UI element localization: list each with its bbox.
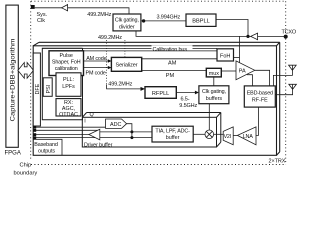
svg-text:PM: PM xyxy=(166,73,175,79)
svg-text:PLL:: PLL: xyxy=(63,77,74,83)
RFPLL box xyxy=(145,87,176,99)
PLL LPFs box xyxy=(56,73,81,97)
svg-text:Clk gating,: Clk gating, xyxy=(202,89,226,95)
svg-text:ADC: ADC xyxy=(110,122,121,128)
chip main box 3D slab xyxy=(33,42,280,155)
double arrow FPGA to chip xyxy=(18,63,34,79)
antenna 2 xyxy=(289,84,297,89)
antenna 1 feed wire xyxy=(273,70,292,86)
svg-text:RFPLL: RFPLL xyxy=(152,91,169,97)
Clk gating divider box xyxy=(113,14,141,31)
svg-text:outputs: outputs xyxy=(38,148,55,154)
Pulse shaper FoH calibration box xyxy=(49,51,84,76)
dotted clock line to serializer xyxy=(124,40,126,57)
TIA LPF ADC-buffer box xyxy=(152,126,193,142)
BBPLL box xyxy=(186,14,216,26)
svg-text:2×TRX: 2×TRX xyxy=(269,158,286,164)
DFE box xyxy=(33,53,40,126)
svg-text:AM code: AM code xyxy=(86,56,106,62)
svg-text:OTDAC: OTDAC xyxy=(59,112,78,118)
calibration bus lower line xyxy=(84,50,218,52)
svg-text:divider: divider xyxy=(119,24,135,30)
mux to PA wire xyxy=(221,70,236,72)
svg-text:LNA: LNA xyxy=(243,134,253,140)
RF-FE to LNA wire xyxy=(256,107,259,135)
mux box xyxy=(206,68,221,77)
left inner container box xyxy=(42,48,82,120)
TIA to mixer wire xyxy=(193,133,205,135)
svg-text:buffers: buffers xyxy=(206,96,223,102)
svg-text:Shaper, FoH: Shaper, FoH xyxy=(52,59,81,65)
RX AGC OTDAC box xyxy=(56,99,81,116)
EBD-based RF-FE box xyxy=(244,86,275,107)
svg-text:boundary: boundary xyxy=(14,170,38,176)
svg-text:9.5GHz: 9.5GHz xyxy=(179,103,197,109)
Sys.Clk wire xyxy=(35,8,129,14)
driver buffer triangle xyxy=(89,129,100,140)
svg-text:6.5-: 6.5- xyxy=(181,97,190,103)
ADC output wire xyxy=(127,124,132,138)
svg-text:AM: AM xyxy=(168,61,177,67)
AM wire serializer to FoH xyxy=(142,58,217,60)
TIA upper input wire xyxy=(100,131,152,133)
TCXO buffer triangle (left pointing) xyxy=(251,33,258,40)
LNA triangle xyxy=(237,127,256,145)
svg-text:499.2MHz: 499.2MHz xyxy=(108,82,132,88)
svg-text:Baseband: Baseband xyxy=(34,142,58,148)
svg-text:Q: Q xyxy=(90,112,94,118)
svg-text:PA: PA xyxy=(239,68,246,74)
wire BBPLL right to TCXO line xyxy=(216,20,248,37)
mux down wire xyxy=(213,77,215,86)
PA bottom tap wire to RF-FE xyxy=(247,75,253,86)
svg-text:I: I xyxy=(84,119,86,125)
svg-text:FPGA: FPGA xyxy=(5,151,21,157)
antenna 2 feed wire xyxy=(275,89,292,94)
baseband wires with junction dots xyxy=(33,126,152,139)
svg-text:BBPLL: BBPLL xyxy=(192,19,209,25)
svg-text:Clk: Clk xyxy=(37,18,45,24)
svg-text:Clk gating,: Clk gating, xyxy=(115,17,139,23)
chip boundary dotted rectangle xyxy=(31,1,286,164)
Sys.Clk square terminal xyxy=(31,5,35,9)
svg-text:EBD-based: EBD-based xyxy=(247,90,273,96)
Serializer box xyxy=(111,57,141,71)
baseband outputs compartment xyxy=(33,139,62,155)
svg-text:calibration: calibration xyxy=(55,66,78,72)
svg-text:Serializer: Serializer xyxy=(116,63,138,69)
svg-text:PSI: PSI xyxy=(46,85,52,94)
svg-text:LPFs: LPFs xyxy=(62,84,75,90)
clock wire down to FoH and PA xyxy=(239,36,241,64)
svg-text:FoH: FoH xyxy=(220,54,230,60)
svg-text:TCXO: TCXO xyxy=(282,30,297,36)
wire divider to BBPLL xyxy=(141,20,186,22)
svg-text:499.2MHz: 499.2MHz xyxy=(87,12,111,18)
calibration bus upper line xyxy=(42,47,217,49)
TCXO terminal dot xyxy=(284,35,288,39)
mixer to V2I wire xyxy=(214,133,224,135)
ADC pentagon xyxy=(106,119,127,128)
calibration bus label xyxy=(152,45,193,50)
PA amplifier triangle xyxy=(236,61,255,80)
junction dot at divider output xyxy=(142,19,145,22)
svg-text:Pulse: Pulse xyxy=(59,53,73,59)
Clk gating buffers box xyxy=(199,86,229,104)
IQ channel 3D slab xyxy=(82,113,221,148)
PA output wire to RF-FE xyxy=(255,70,270,86)
svg-text:mux: mux xyxy=(209,71,219,77)
wire into RFPLL xyxy=(107,85,142,89)
svg-text:DFE: DFE xyxy=(35,83,41,94)
svg-text:Chip: Chip xyxy=(20,162,32,168)
PM code wire xyxy=(84,67,112,69)
AM code wire xyxy=(84,60,112,62)
junction dot on TCXO line xyxy=(246,35,249,38)
svg-text:499.2MHz: 499.2MHz xyxy=(98,35,122,41)
LO wire down to mixer xyxy=(208,104,210,130)
FPGA box xyxy=(6,5,18,147)
svg-text:3.994GHz: 3.994GHz xyxy=(157,15,181,21)
svg-text:V2I: V2I xyxy=(224,134,231,140)
FoH right connection xyxy=(234,57,240,59)
svg-text:RF-FE: RF-FE xyxy=(252,98,268,104)
clock buffer triangle (left pointing) on Sys.Clk wire xyxy=(62,5,68,11)
499.2MHz distribution wire from divider bottom xyxy=(136,31,286,37)
PSI box xyxy=(43,78,52,97)
svg-text:TIA, LPF, ADC-: TIA, LPF, ADC- xyxy=(155,129,190,135)
V2I to LNA wire xyxy=(233,134,237,136)
RFPLL to clk gating buffers wire xyxy=(176,92,196,94)
svg-text:Capture+DBB+algorithm: Capture+DBB+algorithm xyxy=(10,39,17,122)
svg-text:Driver buffer: Driver buffer xyxy=(84,142,113,148)
V2I trapezoid xyxy=(223,127,233,145)
FoH box xyxy=(217,49,234,61)
svg-text:buffer: buffer xyxy=(166,135,180,141)
antenna 1 xyxy=(289,65,297,70)
junction dot ADC/TIA upper xyxy=(130,130,133,133)
dotted clock line to RFPLL xyxy=(106,40,108,85)
junction dot ADC/TIA lower xyxy=(130,136,133,139)
svg-text:PM code: PM code xyxy=(86,70,106,76)
mixer xyxy=(205,130,214,139)
PM wire serializer to mux xyxy=(142,70,207,72)
svg-text:Calibration bus: Calibration bus xyxy=(153,47,188,53)
